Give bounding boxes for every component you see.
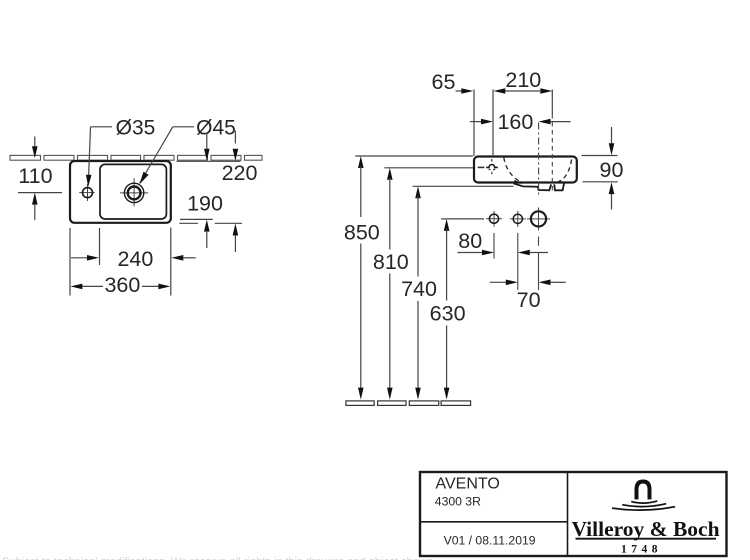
svg-text:630: 630 xyxy=(430,302,466,326)
svg-text:810: 810 xyxy=(373,250,409,274)
svg-text:80: 80 xyxy=(458,229,482,253)
svg-text:Ø35: Ø35 xyxy=(116,117,156,140)
svg-text:Ø45: Ø45 xyxy=(196,117,236,140)
svg-text:210: 210 xyxy=(505,68,541,92)
svg-text:110: 110 xyxy=(18,164,52,188)
svg-text:V01 / 08.11.2019: V01 / 08.11.2019 xyxy=(444,534,536,548)
svg-text:220: 220 xyxy=(222,161,258,185)
svg-text:850: 850 xyxy=(344,221,380,245)
svg-text:Subject to technical modificat: Subject to technical modifications. We r… xyxy=(2,556,436,560)
svg-text:190: 190 xyxy=(187,192,223,216)
svg-text:70: 70 xyxy=(517,288,541,312)
svg-text:65: 65 xyxy=(432,70,456,94)
svg-text:90: 90 xyxy=(600,158,624,182)
svg-text:240: 240 xyxy=(117,247,153,271)
svg-text:AVENTO: AVENTO xyxy=(436,476,500,493)
svg-text:360: 360 xyxy=(104,273,140,297)
svg-text:160: 160 xyxy=(497,110,533,134)
svg-text:1748: 1748 xyxy=(621,543,662,555)
svg-text:740: 740 xyxy=(401,277,437,301)
svg-text:4300 3R: 4300 3R xyxy=(435,495,481,509)
svg-text:Villeroy & Boch: Villeroy & Boch xyxy=(571,517,719,541)
